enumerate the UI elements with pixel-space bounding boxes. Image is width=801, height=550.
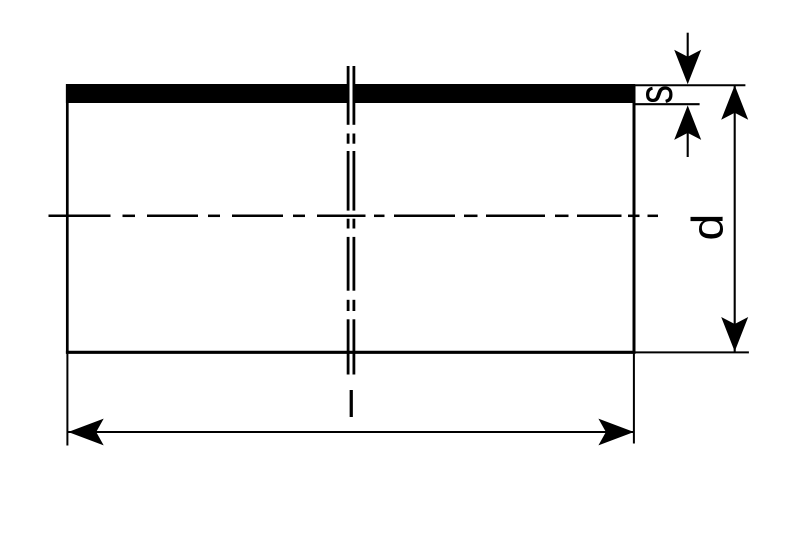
joint line left (vertical dash-dot): [347, 66, 350, 375]
extension line bottom (for d): [636, 351, 749, 353]
dimension s: upper leader shaft: [687, 33, 689, 58]
dimension s: lower leader shaft: [687, 132, 689, 157]
dimension l: line: [67, 431, 634, 433]
extension line right (for l): [633, 354, 635, 444]
tube outline left edge: [66, 84, 69, 353]
joint gap slit in section bar: [350, 83, 353, 104]
extension line inner surface (for s): [636, 103, 700, 105]
dimension l: right arrowhead pointing right: [598, 419, 634, 446]
svg-text:l: l: [347, 384, 355, 425]
tube outline right edge: [633, 84, 636, 353]
dimension s: lower arrowhead pointing up: [674, 105, 701, 139]
dimension d: line: [734, 85, 736, 351]
dimension d: bottom arrowhead pointing down: [721, 317, 748, 352]
dimension l: left arrowhead pointing left: [68, 419, 104, 446]
extension line top (outer surface, for s and d): [636, 84, 746, 86]
svg-text:s: s: [630, 85, 683, 104]
joint line right (vertical dash-dot): [352, 66, 355, 375]
horizontal centerline (dash-dot): [49, 215, 659, 218]
tube wall section bar (top, blackened thin section): [66, 84, 635, 103]
extension line left (for l): [66, 354, 68, 446]
svg-text:d: d: [683, 214, 733, 241]
tube outline bottom edge: [66, 351, 636, 354]
dimension s: upper arrowhead pointing down: [674, 50, 701, 84]
dimension d: top arrowhead pointing up: [721, 85, 748, 120]
